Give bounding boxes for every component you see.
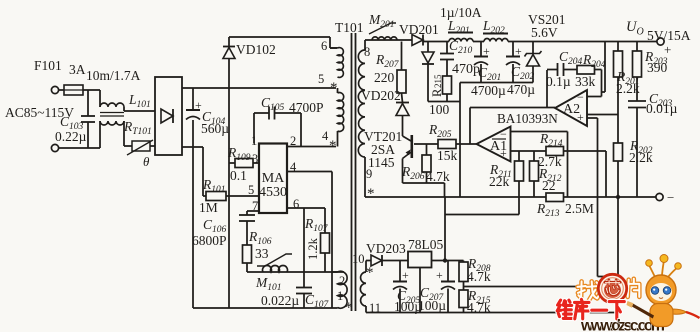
wire L201 L202 (473, 41, 484, 43)
node AC input terminal bottom (51, 144, 58, 151)
wire M101 line (247, 271, 344, 273)
capacitor C202 (512, 42, 514, 57)
svg-text:*: * (345, 300, 353, 316)
capacitor C204 and resistor R204 feedback (546, 70, 548, 108)
svg-text:100: 100 (429, 102, 450, 117)
wire pin 6 drop (303, 208, 305, 272)
svg-text:560µ: 560µ (201, 121, 229, 136)
svg-text:+: + (515, 44, 522, 58)
svg-text:0.22µ: 0.22µ (55, 129, 87, 144)
svg-text:VD102: VD102 (236, 42, 276, 57)
capacitor C203 (628, 100, 646, 102)
wire secondary ground (460, 82, 533, 84)
resistor R211 (518, 151, 520, 161)
svg-text:4700P: 4700P (289, 100, 324, 115)
wire primary ground rail (193, 307, 338, 309)
svg-text:3A: 3A (69, 62, 86, 77)
svg-text:*: * (367, 186, 375, 202)
svg-text:VD203: VD203 (366, 241, 406, 256)
wire A1 plus input (511, 150, 607, 152)
capacitor C107 (303, 272, 305, 288)
diode VD102 (228, 37, 230, 47)
resistor R106 (243, 245, 252, 263)
node output positive terminal (657, 38, 664, 45)
svg-text:−: − (500, 127, 507, 141)
transformer T101 winding 6-5 (338, 48, 344, 78)
resistor R107 (287, 207, 325, 209)
svg-text:5.6V: 5.6V (531, 25, 558, 40)
transformer T101 winding 8-9 secondary (364, 40, 366, 50)
svg-text:2.2k: 2.2k (616, 81, 640, 96)
node AC input terminal top (51, 86, 58, 93)
wire C104 ground drop (192, 147, 194, 308)
svg-text:215: 215 (433, 74, 443, 88)
svg-text:VD202: VD202 (361, 88, 401, 103)
resistor R205 (414, 143, 438, 145)
svg-text:+: + (664, 42, 671, 57)
svg-text:θ: θ (143, 154, 150, 169)
wire secondary bottom rail (366, 312, 618, 314)
svg-text:5: 5 (248, 183, 254, 197)
capacitor C210 (446, 42, 448, 54)
svg-text:0.022µ: 0.022µ (261, 293, 299, 308)
svg-text:470µ: 470µ (507, 82, 535, 97)
svg-text:1: 1 (337, 289, 343, 303)
inductor M101 saturable (263, 266, 288, 272)
svg-text:T101: T101 (335, 20, 364, 35)
wire primary top to pin 6 (229, 36, 330, 38)
watermark logo dzsc (578, 281, 600, 300)
resistor R213 (546, 193, 564, 202)
wire divider to A2+ (587, 114, 618, 116)
wire A2 output (470, 107, 555, 109)
regulator 78L05 (408, 252, 432, 268)
svg-text:0.1: 0.1 (230, 168, 247, 183)
capacitor C205 (399, 261, 401, 282)
svg-text:*: * (366, 265, 374, 281)
svg-text:0.1µ: 0.1µ (546, 74, 571, 89)
transformer T101 winding 5-4 (337, 88, 339, 93)
svg-text:10m/1.7A: 10m/1.7A (86, 68, 141, 83)
wire R214 line drop (605, 151, 607, 197)
wire A2 plus input (587, 117, 598, 119)
transformer T101 winding 10-11 (365, 261, 367, 273)
svg-text:−: − (667, 190, 674, 205)
svg-text:100µ: 100µ (418, 298, 446, 313)
svg-text:+: + (577, 110, 584, 124)
svg-text:78L05: 78L05 (408, 237, 443, 252)
svg-text:390: 390 (647, 60, 668, 75)
op-amp A2 BA10393N (555, 90, 587, 126)
capacitor C207 (447, 261, 449, 282)
thermistor RT101 (123, 121, 125, 146)
capacitor C201 (480, 42, 482, 57)
svg-text:+: + (436, 268, 443, 282)
svg-text:*: * (329, 138, 337, 154)
op-amp A1 BA10393N (477, 127, 511, 162)
capacitor C105 (253, 113, 255, 144)
resistor R207 (401, 42, 403, 71)
svg-text:+: + (483, 44, 490, 58)
watermark red characters weiku yixia (557, 300, 572, 318)
wire VD201 to L201 (423, 41, 449, 43)
wire pin 2 to transformer pin 4 (287, 146, 336, 148)
resistor R203 (636, 42, 638, 52)
diode VD201 (412, 35, 423, 46)
diode VD203 (366, 260, 371, 262)
svg-text:8: 8 (364, 45, 370, 59)
wire 78L05 output (432, 260, 464, 262)
svg-text:2: 2 (339, 274, 345, 288)
svg-text:220: 220 (374, 70, 395, 85)
svg-text:5V/15A: 5V/15A (647, 28, 691, 43)
svg-text:10: 10 (352, 252, 365, 266)
svg-text:33k: 33k (575, 74, 596, 89)
wire snubber bottom (428, 101, 460, 103)
watermark mascot (627, 255, 700, 327)
svg-text:15k: 15k (437, 148, 458, 163)
svg-text:4.7k: 4.7k (467, 269, 491, 284)
wire pin 4 to bottom (287, 171, 332, 173)
svg-text:4530: 4530 (259, 185, 287, 200)
wire A2 minus input (587, 96, 602, 98)
capacitor C106 (247, 210, 259, 212)
svg-text:+: + (500, 146, 507, 160)
svg-text:5: 5 (318, 72, 324, 86)
inductor L101 common-mode choke (99, 90, 101, 107)
inductor M201 saturable (372, 37, 397, 40)
svg-text:6800P: 6800P (192, 233, 227, 248)
resistor R215 snubber (443, 76, 452, 94)
wire secondary ground drop (459, 83, 461, 198)
svg-text:*: * (330, 80, 338, 96)
svg-text:0.01µ: 0.01µ (646, 101, 678, 116)
svg-text:6: 6 (321, 39, 327, 53)
svg-text:R: R (430, 88, 444, 97)
inductor L202 (483, 33, 508, 35)
watermark magnifier circle (598, 274, 626, 302)
svg-text:F101: F101 (34, 58, 62, 73)
wire R211 bottom link (445, 214, 520, 216)
resistor R206 (426, 144, 428, 155)
wire 78L05 output up to rail (444, 197, 446, 261)
transformer T101 winding 2-1 (332, 271, 338, 273)
op-amp U1 MA4530 control IC (259, 144, 287, 214)
wire secondary top (365, 39, 412, 41)
wire DC bus negative (182, 146, 203, 148)
capacitor C104 (192, 88, 194, 110)
svg-text:4: 4 (322, 129, 329, 143)
resistor R212 (533, 151, 535, 161)
snubber diode (427, 42, 429, 53)
bridge rectifier (155, 77, 182, 155)
svg-text:1µ/10A: 1µ/10A (440, 5, 482, 20)
transistor Q1 VT201 2SA1145 (410, 135, 413, 158)
node output negative terminal (656, 193, 663, 200)
resistor R101 (203, 195, 206, 197)
svg-text:33: 33 (255, 246, 269, 261)
resistor R215 divider (459, 290, 468, 308)
svg-text:MA: MA (262, 171, 285, 186)
wire negative to R101 (202, 147, 204, 196)
svg-text:BA10393N: BA10393N (497, 111, 558, 126)
wire A2 minus pullup (604, 42, 606, 93)
wire R208 R215 tap (463, 282, 465, 291)
wire A1 minus input (511, 131, 568, 133)
svg-text:−: − (577, 90, 584, 104)
resistor R109 (229, 162, 235, 164)
svg-text:6: 6 (293, 197, 299, 211)
inductor L201 (448, 32, 473, 34)
svg-text:+: + (195, 98, 202, 112)
svg-text:1.2k: 1.2k (306, 237, 320, 260)
wire output rail (508, 41, 657, 43)
svg-text:4700µ: 4700µ (471, 83, 506, 98)
resistor R208 (463, 261, 465, 263)
wire divider bottom U (598, 276, 619, 278)
svg-text:2.2k: 2.2k (629, 150, 653, 165)
resistor R214 (546, 147, 564, 156)
svg-text:1145: 1145 (368, 155, 395, 170)
diode VD202 (402, 93, 403, 103)
capacitor C103 (87, 90, 89, 116)
svg-text:4.7k: 4.7k (426, 169, 450, 184)
wire top AC (83, 89, 100, 91)
wire emitter line (403, 182, 445, 184)
svg-text:2.5M: 2.5M (565, 201, 594, 216)
svg-text:+: + (402, 268, 409, 282)
svg-text:22: 22 (542, 178, 556, 193)
zener diode VS201 5.6V (532, 42, 534, 55)
transformer T101 core (351, 33, 353, 311)
svg-text:1M: 1M (199, 200, 218, 215)
resistor R202 (614, 143, 623, 161)
wire DC bus positive (182, 87, 336, 89)
resistor R201 (617, 42, 619, 52)
svg-text:22k: 22k (489, 174, 510, 189)
svg-text:VD201: VD201 (399, 22, 439, 37)
wire bottom AC (59, 147, 100, 149)
wire negative rail (365, 196, 656, 198)
fuse F101 (59, 89, 64, 91)
